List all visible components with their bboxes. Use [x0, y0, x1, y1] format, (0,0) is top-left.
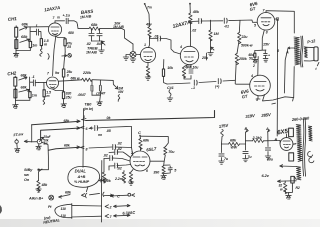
- svg-text:WW: WW: [231, 146, 238, 150]
- svg-text:.05: .05: [106, 129, 112, 133]
- svg-text:1M A/B: 1M A/B: [113, 25, 124, 29]
- svg-text:500k-w: 500k-w: [241, 44, 253, 48]
- svg-text:15V: 15V: [263, 43, 270, 47]
- svg-text:48v: 48v: [145, 23, 153, 27]
- mains label: [43, 215, 60, 224]
- svg-text:8: 8: [277, 49, 280, 53]
- speaker ground mark: [315, 62, 319, 71]
- svg-text:2: 2: [252, 64, 255, 68]
- capacitor .1 (CH1 series): [35, 24, 41, 35]
- svg-text:.0047: .0047: [78, 93, 87, 97]
- svg-text:8: 8: [86, 148, 88, 152]
- svg-text:22u: 22u: [241, 35, 249, 39]
- svg-text:48k: 48k: [192, 10, 200, 14]
- pot wiper treble: [92, 41, 106, 53]
- svg-text:7: 7: [263, 9, 266, 13]
- plate lead V1a: [55, 21, 65, 23]
- speaker P-12: [304, 38, 318, 61]
- capacitor .02 bass: [86, 29, 94, 46]
- svg-text:68k: 68k: [143, 139, 150, 143]
- svg-text:C: C: [138, 130, 141, 135]
- resistor 68k (CH1 bottom): [20, 34, 30, 43]
- svg-text:A: A: [265, 127, 269, 131]
- svg-text:6: 6: [86, 127, 89, 131]
- label 6V6 GT: [249, 1, 258, 12]
- svg-text:l/W: l/W: [118, 90, 124, 94]
- svg-text:390: 390: [153, 170, 159, 174]
- svg-text:.02: .02: [117, 142, 122, 146]
- vertical to 6SL7 grid: [131, 127, 132, 156]
- resistor 1M CH2: [16, 90, 38, 101]
- label 10k pot: [113, 21, 124, 30]
- cathode chain cap 25u: [62, 52, 73, 91]
- cathode resistors 6SL7: [128, 170, 134, 186]
- label 6V6 GT (2): [240, 89, 249, 100]
- rectifier cathode to rail: [279, 141, 281, 145]
- svg-text:220k: 220k: [82, 71, 92, 75]
- svg-text:Pt: Pt: [48, 205, 52, 209]
- output wire right 6SL7: [150, 161, 164, 166]
- svg-text:10k: 10k: [167, 66, 174, 70]
- OT primary winding: [294, 37, 300, 65]
- svg-text:6X5: 6X5: [277, 128, 289, 137]
- resistor 68k (CH2 bottom): [19, 86, 29, 92]
- svg-text:m: m: [44, 42, 48, 46]
- svg-text:12AX7A: 12AX7A: [44, 5, 61, 12]
- net C squiggle: [167, 86, 174, 101]
- svg-text:7: 7: [47, 72, 50, 76]
- svg-text:250k: 250k: [238, 57, 248, 61]
- ground CH2 grid resistor: [43, 100, 45, 105]
- plate feed wire to 70u resistor: [141, 136, 169, 147]
- mains vertical wire: [101, 161, 103, 223]
- wiper + ground 1M: [201, 47, 214, 60]
- svg-text:-01: -01: [224, 25, 229, 29]
- treble pot label: [86, 46, 98, 55]
- rectifier heater tap: [293, 143, 296, 146]
- svg-text:w: w: [280, 187, 283, 191]
- svg-text:P-12: P-12: [307, 38, 317, 44]
- volume pot (circle): [130, 52, 140, 58]
- OT primary bottom lead: [293, 67, 296, 98]
- cathode resistor 10k (V2a side): [162, 60, 174, 85]
- cathode resistor 820 + cap V1b: [53, 89, 73, 104]
- jack J3 (box): [14, 76, 17, 86]
- svg-text:2: 2: [109, 205, 112, 209]
- rectifier 6X5: [280, 134, 295, 150]
- svg-text:On: On: [24, 178, 30, 182]
- capacitor .1 CH2 series: [32, 75, 39, 86]
- wire pot to <1: [32, 119, 80, 125]
- svg-text:(+): (+): [215, 85, 220, 89]
- svg-text:1M A/B: 1M A/B: [80, 14, 92, 19]
- resistor 390: [153, 166, 165, 176]
- svg-text:.02: .02: [117, 167, 122, 171]
- choke squiggle: [221, 130, 224, 145]
- ground (jack sleeve): [13, 37, 18, 57]
- PT secondary winding (right): [308, 126, 312, 141]
- triode V2b: [179, 45, 199, 70]
- svg-text:1M: 1M: [214, 32, 220, 36]
- svg-text:4: 4: [250, 74, 253, 78]
- cap junction + ground: [92, 95, 102, 105]
- cap .02 row8: [89, 142, 132, 150]
- svg-text:DUAL: DUAL: [75, 169, 87, 174]
- cathode resistor 470 (6V6 #1): [247, 51, 257, 69]
- label TRB pot: [84, 103, 94, 111]
- svg-text:sw: sw: [24, 173, 30, 177]
- svg-text:(m br): (m br): [84, 107, 94, 111]
- left edge smudge: [0, 205, 2, 214]
- filter cap 20u (319V): [243, 132, 253, 162]
- svg-text:7m: 7m: [147, 6, 152, 10]
- svg-text:5: 5: [174, 169, 177, 173]
- svg-text:6SL7: 6SL7: [146, 146, 157, 152]
- capacitor .047 treble: [96, 29, 104, 46]
- wire tone rail: [78, 25, 90, 29]
- triode V2a: [140, 43, 155, 63]
- svg-text:68k: 68k: [21, 34, 28, 39]
- svg-text:FT.sw: FT.sw: [13, 132, 24, 137]
- svg-text:B: B: [245, 127, 248, 131]
- PT tap box upper: [289, 128, 294, 136]
- wire V1a to V1b column: [53, 36, 56, 76]
- plate wire 6V6#2 to OT bottom: [263, 95, 294, 101]
- svg-text:1: 1: [144, 43, 146, 47]
- label X10k: [99, 179, 111, 183]
- screen lead down: [275, 18, 279, 136]
- svg-text:68k: 68k: [91, 22, 98, 27]
- NFB rail: [167, 79, 235, 90]
- OT secondary: [304, 47, 307, 58]
- svg-text:CH1: CH1: [8, 16, 18, 22]
- svg-text:260-0-260: 260-0-260: [291, 115, 311, 122]
- ground (grid resistor): [40, 49, 49, 59]
- svg-text:25: 25: [66, 45, 71, 49]
- bias pot 10k: [32, 135, 52, 150]
- svg-text:680: 680: [68, 31, 74, 35]
- svg-text:8: 8: [67, 74, 69, 78]
- cathode resistor 680 + cap V1a: [55, 31, 74, 52]
- standby label: [24, 168, 33, 182]
- svg-text:7: 7: [53, 16, 56, 20]
- svg-text:68k: 68k: [22, 21, 29, 26]
- svg-text:1m: 1m: [32, 94, 38, 98]
- svg-text:.01: .01: [154, 35, 159, 39]
- cap+ground at pot: [123, 44, 136, 62]
- connector <2 row: [72, 204, 130, 209]
- resistor 68k WW: [222, 139, 246, 150]
- svg-text:B: B: [275, 138, 278, 142]
- ground CH2 jacks: [13, 86, 18, 108]
- plate resistor 48k V2b: [189, 3, 200, 47]
- svg-text:m: m: [57, 15, 60, 19]
- OT core: [300, 36, 303, 67]
- jack J1 (box): [15, 26, 18, 37]
- wire to net C bottom: [104, 194, 120, 199]
- filter cap 20u (285V): [265, 133, 274, 162]
- svg-text:68k w: 68k w: [71, 77, 80, 81]
- svg-text:A+B: A+B: [77, 174, 86, 179]
- cap .01 interstage: [150, 35, 175, 53]
- svg-text:GT: GT: [249, 6, 256, 12]
- wire A tap down: [284, 48, 288, 93]
- cathode cap + (6V6 #1): [263, 50, 270, 62]
- svg-text:25u: 25u: [201, 56, 209, 60]
- grid lead V2b: [174, 52, 181, 54]
- svg-text:68k: 68k: [230, 139, 237, 143]
- B+ distribution wire: [86, 111, 215, 121]
- svg-text:285V: 285V: [260, 112, 272, 118]
- svg-text:-.1: -.1: [191, 86, 195, 90]
- net A arrow: [265, 127, 270, 132]
- grid resistor 1M (6V6 #1): [209, 20, 220, 47]
- wire <6 row: [41, 126, 89, 139]
- svg-text:1.5k: 1.5k: [185, 65, 193, 69]
- svg-text:25u: 25u: [65, 95, 73, 99]
- hum balance resistor box R2: [291, 176, 300, 190]
- cathode V2b 1.5k + 10u: [182, 65, 199, 80]
- svg-text:4: 4: [179, 45, 182, 49]
- svg-text:TB0: TB0: [84, 103, 92, 107]
- capacitor .0047 (first): [78, 80, 93, 97]
- svg-text:1M A/B: 1M A/B: [86, 51, 97, 55]
- svg-text:StBy: StBy: [24, 168, 33, 172]
- resistor 470k: [99, 159, 109, 184]
- ground pot ch2: [118, 95, 120, 102]
- connector <7 row: [72, 214, 130, 219]
- svg-text:5: 5: [254, 24, 257, 28]
- svg-text:319V: 319V: [245, 113, 256, 119]
- duo-triode 6SL7: [130, 151, 150, 173]
- balloon DUAL HUM POT: [68, 166, 100, 187]
- connector <1: [82, 115, 87, 121]
- svg-text:.02: .02: [117, 147, 122, 151]
- svg-text:GT: GT: [241, 93, 248, 99]
- bottom scan band: [0, 0, 1, 1]
- coupling cap .02 to 6V6 grid: [191, 18, 258, 32]
- svg-text:9w: 9w: [55, 71, 60, 75]
- hum balance resistor 32: [279, 181, 293, 194]
- svg-text:Allen B+: Allen B+: [28, 197, 44, 201]
- svg-text:7u: 7u: [248, 155, 253, 159]
- wire FT.SW to junction: [24, 140, 31, 143]
- resistor 1M grid leak: [16, 39, 38, 50]
- svg-text:70u: 70u: [168, 150, 175, 154]
- cathode V2a: [145, 63, 151, 81]
- wire <8 row: [48, 143, 87, 151]
- wire junction column CH2: [30, 77, 33, 89]
- svg-text:.1: .1: [35, 24, 38, 28]
- svg-text:CH2: CH2: [7, 71, 17, 77]
- plate wire to OT: [266, 11, 294, 33]
- svg-text:6: 6: [146, 169, 148, 173]
- svg-text:20u: 20u: [266, 158, 274, 162]
- triode V1b: [47, 71, 60, 89]
- svg-text:+.1u: +.1u: [63, 14, 71, 18]
- net B arrow: [245, 127, 249, 132]
- svg-text:68k: 68k: [64, 143, 71, 147]
- wire junction column: [30, 27, 36, 39]
- pilot wire row: [59, 191, 135, 199]
- svg-text:.02: .02: [103, 154, 108, 158]
- coupling cap .1u: [63, 14, 78, 26]
- svg-text:10u: 10u: [193, 66, 200, 70]
- svg-text:nn: nn: [98, 133, 102, 137]
- wire1 corner down: [31, 125, 33, 142]
- heater wire arrow: [262, 165, 297, 178]
- pentode 6V6 #2: [250, 74, 271, 102]
- rectifier heater loops: [308, 151, 314, 162]
- resistor 68k (CH1 top): [20, 21, 29, 30]
- PT heater winding: [296, 167, 301, 180]
- PT primary winding: [55, 204, 72, 219]
- cathode 6V6 #1: [255, 30, 270, 51]
- resistor 70u (plate 2): [164, 147, 175, 161]
- plate resistor 47k V2a: [144, 3, 153, 48]
- svg-text:6.2v: 6.2v: [262, 173, 270, 178]
- bypass cap 5: [164, 165, 178, 174]
- svg-text:7u: 7u: [224, 157, 229, 161]
- svg-text:110: 110: [61, 207, 66, 211]
- resistor 1.5k (grid): [40, 32, 49, 49]
- svg-text:50: 50: [249, 56, 253, 60]
- svg-text:.02: .02: [192, 29, 197, 33]
- jack J2 (box): [15, 38, 18, 48]
- net label A + tap: [285, 47, 295, 55]
- wire to V1a grid: [27, 26, 48, 28]
- ground cathode V1b: [61, 104, 66, 108]
- caps .02 at 6SL7 left: [109, 147, 131, 158]
- svg-text:R2: R2: [296, 186, 300, 190]
- label BASS pot: [80, 9, 95, 20]
- wire stack to volume: [122, 29, 133, 44]
- net arrow theta: [62, 54, 72, 58]
- screen lead 6V6 #2 up: [257, 57, 259, 76]
- bus vertical (pot to hum oval): [82, 109, 85, 168]
- ground 6SL7 cathode: [161, 176, 166, 180]
- resistor 1.5k CH2: [43, 82, 52, 99]
- svg-text:8: 8: [266, 31, 268, 35]
- wire to V1b grid: [39, 81, 47, 83]
- cathode 6V6 #2: [256, 96, 260, 99]
- svg-text:.1: .1: [32, 75, 35, 79]
- capacitor .0047 (second): [96, 80, 106, 95]
- PT tap box lower: [289, 153, 294, 161]
- mixer resistor 220k: [82, 71, 114, 81]
- balloon tail: [86, 187, 88, 192]
- svg-text:+: +: [268, 54, 270, 58]
- svg-text:175V: 175V: [218, 123, 229, 129]
- pentode 6V6 #1: [254, 9, 275, 31]
- grid lead V2a: [140, 54, 141, 56]
- triode V1a: [48, 15, 61, 36]
- resistor 48k to ground: [36, 172, 49, 192]
- svg-text:2: 2: [130, 151, 133, 155]
- svg-text:68k: 68k: [65, 191, 72, 195]
- standby switch wire: [38, 142, 49, 172]
- volume pot wiper (ch2): [113, 80, 124, 94]
- svg-text:t: t: [315, 67, 317, 71]
- svg-text:% HUMP: % HUMP: [74, 180, 90, 184]
- svg-text:110: 110: [61, 214, 66, 218]
- FT SW jack: [13, 132, 24, 152]
- PT HV winding: [296, 125, 302, 162]
- svg-text:X10k: X10k: [102, 179, 112, 183]
- svg-text:48k: 48k: [41, 183, 49, 187]
- net C node: [138, 130, 141, 136]
- heater center ground: [286, 193, 291, 199]
- pilot lamp: [28, 195, 54, 200]
- PT core: [303, 118, 306, 176]
- svg-text:7: 7: [110, 215, 113, 219]
- stray dash: [272, 102, 276, 105]
- plate resistor 68k 6SL7: [139, 136, 150, 151]
- resistor 2.2m: [109, 166, 126, 183]
- resistor 68k (CH2 top): [19, 74, 28, 80]
- svg-text:1m: 1m: [32, 43, 38, 47]
- grid resistor 220k (6V6 #2): [235, 20, 252, 84]
- svg-text:2.2m: 2.2m: [114, 177, 124, 181]
- cap .05 row6: [89, 125, 131, 137]
- plate wire V1b to mixer: [59, 77, 82, 82]
- resistor 68k slope: [89, 22, 122, 30]
- filter cap 20u (175V): [219, 144, 229, 164]
- heater return arrow: [278, 180, 297, 183]
- svg-text:2.2k0: 2.2k0: [252, 136, 263, 140]
- PSU rail + resistor 2.2k: [246, 136, 281, 143]
- jack J4 (box): [14, 88, 17, 98]
